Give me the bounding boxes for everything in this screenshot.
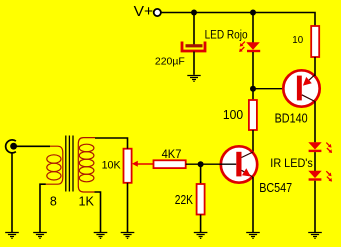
svg-text:1K: 1K (79, 195, 95, 209)
transformer T1 primary winding (46, 146, 63, 184)
wire led branch top (252, 13, 254, 44)
svg-text:100: 100 (223, 108, 243, 122)
wire connector to ground (11, 153, 13, 232)
svg-text:22K: 22K (175, 193, 194, 207)
potentiometer wiper arrow (132, 161, 154, 167)
ground input (5, 233, 19, 239)
svg-text:BC547: BC547 (259, 181, 292, 195)
transistor Q2 BC547 circle (221, 146, 257, 182)
LED D1 cathode bar (247, 50, 260, 52)
connector J1 input jack (6, 140, 17, 153)
wire collector to IR leds (314, 101, 316, 142)
svg-text:4K7: 4K7 (162, 147, 182, 161)
resistor R4 22K (197, 184, 205, 215)
wire cap to ground (193, 52, 195, 75)
resistor R3 4K7 (154, 160, 186, 168)
svg-text:V+: V+ (134, 3, 154, 20)
ground IR leds (308, 233, 322, 239)
ground secondary (94, 233, 108, 239)
wire between IR leds (314, 152, 316, 171)
wire junction to 22K (200, 164, 202, 184)
transistor Q1 BD140 circle (283, 70, 319, 106)
transistor Q1 base bar (297, 76, 302, 101)
svg-text:220µF: 220µF (155, 56, 185, 68)
capacitor C1 220uF cup (182, 42, 205, 52)
LED D3 IR triangle (308, 171, 321, 178)
ground pot (121, 233, 135, 239)
LED D1 red triangle (246, 42, 260, 50)
svg-text:LED Rojo: LED Rojo (205, 30, 248, 42)
transistor Q2 collector line (242, 152, 254, 158)
wire 4K7 to junction (186, 163, 237, 165)
transformer T1 core (66, 136, 73, 192)
wire 22K to ground (200, 215, 202, 233)
wire secondary bottom to ground (95, 192, 101, 232)
node junction 4K7/22K/base (198, 161, 204, 167)
node junction dot led (250, 10, 256, 16)
ground primary (33, 233, 47, 239)
wire base BD140 (253, 88, 297, 90)
potentiometer R5 10K body (124, 149, 132, 183)
LED D3 emission arrows (326, 171, 332, 181)
node junction base BD140 (250, 86, 256, 92)
ground cap (187, 76, 200, 82)
transistor Q1 collector line (302, 95, 315, 102)
ground BC547 emitter (246, 233, 260, 239)
wire IR leds to ground (314, 181, 316, 232)
svg-text:IR LED's: IR LED's (270, 156, 313, 170)
wire cap branch (193, 13, 195, 46)
transistor Q2 emitter line with arrow (242, 168, 253, 177)
LED D3 cathode bar (309, 178, 322, 180)
transistor Q1 emitter arrow (303, 75, 315, 86)
LED D1 emission arrows (239, 42, 245, 52)
wire resistor100 to BC547 collector (252, 130, 254, 152)
LED D2 emission arrows (326, 143, 332, 153)
wire pot top to transformer (95, 138, 128, 149)
LED D2 cathode bar (309, 150, 322, 152)
node junction dot cap (191, 10, 197, 16)
svg-text:BD140: BD140 (275, 112, 308, 126)
wire top rail (161, 13, 315, 27)
svg-text:10: 10 (292, 35, 303, 46)
resistor R1 10 (311, 26, 319, 57)
wire primary bottom to ground (40, 184, 46, 232)
wire resistor10 to emitter (314, 57, 316, 76)
wire connector to transformer (15, 145, 50, 147)
terminal circle V+ (154, 9, 161, 16)
transformer T1 secondary winding (78, 138, 95, 192)
wire pot bottom to ground (127, 183, 129, 232)
capacitor C1 220uF plate (186, 44, 203, 47)
svg-text:10K: 10K (102, 159, 122, 171)
ground 22K (194, 233, 208, 239)
LED D2 IR triangle (308, 142, 321, 149)
svg-text:8: 8 (50, 195, 57, 209)
resistor R2 100 (249, 100, 257, 130)
wire led to junction (252, 52, 254, 100)
transistor Q2 base bar (236, 152, 241, 177)
wire BC547 emitter to ground (252, 177, 254, 232)
